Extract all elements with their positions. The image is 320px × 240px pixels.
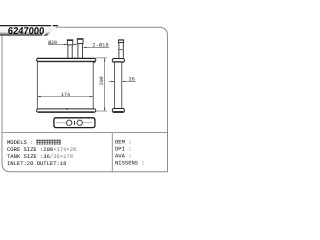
outlet pipe (right, front view): [77, 39, 83, 59]
svg-text:174: 174: [61, 92, 70, 98]
dimension 208: [96, 58, 107, 111]
dimension 26: [109, 77, 136, 83]
drawing frame: [2, 27, 168, 172]
flange hole right: [77, 120, 82, 125]
side view top cap lower edge: [114, 61, 124, 63]
svg-text:AVA :: AVA :: [115, 152, 132, 159]
spec text right column: [115, 139, 145, 167]
dimension 174: [38, 92, 94, 98]
flange center pin: [74, 121, 76, 125]
inlet pipe (left, front view): [67, 40, 73, 58]
divider vertical: [111, 133, 113, 172]
flange hole left: [67, 120, 72, 125]
side view top cap: [112, 59, 124, 63]
label 2-Ø18 with leader: [83, 43, 109, 49]
svg-text:TANK SIZE :36/36×178: TANK SIZE :36/36×178: [7, 153, 73, 160]
side view bottom cap: [112, 109, 124, 113]
svg-text:NISSENS :: NISSENS :: [115, 159, 145, 166]
svg-text:6247000: 6247000: [7, 26, 45, 37]
spec text left column: [7, 139, 76, 167]
side view pipe: [119, 40, 124, 59]
front view bottom tank: [37, 108, 96, 112]
bottom flange detail: [54, 118, 95, 128]
model name CJK glyph blocks: [36, 140, 60, 145]
front view top tank: [37, 58, 96, 63]
svg-text:INLET:20 OUTLET:18: INLET:20 OUTLET:18: [7, 160, 66, 167]
svg-text:26: 26: [129, 77, 135, 83]
side view core column: [115, 62, 122, 108]
svg-text:208: 208: [99, 76, 105, 85]
front view core: [37, 62, 93, 109]
divider horizontal: [2, 132, 168, 134]
part number banner: [0, 25, 58, 37]
label Ø20 with leader: [48, 40, 77, 46]
svg-text:Ø20: Ø20: [48, 40, 57, 46]
svg-text:CORE SIZE :208×174×28: CORE SIZE :208×174×28: [7, 146, 76, 153]
